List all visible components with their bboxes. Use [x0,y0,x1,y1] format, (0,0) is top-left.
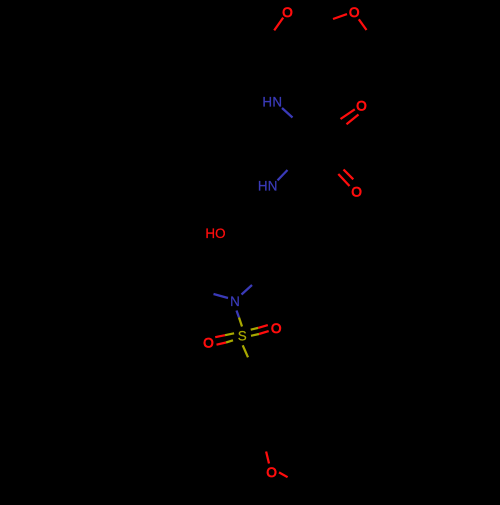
double bond C=O4 lower red line [347,115,359,125]
double bond S=O11 upper line yellow half [251,328,258,330]
atom label O11 (right sulfonyl oxygen) [271,321,281,336]
svg-text:O: O [282,5,292,20]
svg-text:O: O [349,5,359,20]
atom label O10 (left sulfonyl oxygen) [203,335,213,350]
bond Caryl-O12 red half [266,452,269,464]
atom label O12 (methoxy oxygen) [266,465,276,480]
svg-text:O: O [215,226,225,241]
bond N8-CH2 upper-right blue half [242,285,253,295]
atom label H of HO7 (hydroxyl) [205,226,225,241]
double bond C=O6 left red line [338,174,349,186]
double bond S=O10 upper line yellow half [225,333,234,335]
double bond C=O6 right red line [344,170,354,180]
atom label O6 (lower carbonyl oxygen) [351,184,361,199]
double bond S=O11 lower line red half [259,331,269,334]
double bond C=O4 upper red line [341,109,355,119]
svg-text:S: S [238,328,247,343]
svg-text:H: H [258,179,268,194]
svg-text:O: O [351,184,361,199]
svg-text:O: O [203,335,213,350]
double bond S=O11 upper line red half [258,325,268,328]
svg-text:O: O [356,99,366,114]
bond O2-C left red half [333,14,347,19]
bond O12-CH3 red half [279,472,288,477]
svg-text:H: H [205,226,215,241]
atom label O2 (top-right furan oxygen) [349,5,359,20]
atom label O4 (upper carbonyl oxygen) [356,99,366,114]
bond O2-CH2 right red half [359,19,367,30]
bond N8-S blue half [237,311,240,318]
bond O1-CH2 red half [274,18,283,31]
svg-text:O: O [271,321,281,336]
atom label S9 (sulfonyl sulfur) [238,328,247,343]
atom label H of HN5 (lower squaramide NH) [258,179,278,194]
svg-text:N: N [230,294,240,309]
double bond S=O10 upper line red half [215,335,225,337]
double bond S=O11 lower line yellow half [251,334,259,336]
bond N8-S yellow half [239,318,242,327]
svg-text:N: N [272,94,282,109]
atom label O1 (top-left furan oxygen) [282,5,292,20]
svg-text:N: N [268,179,278,194]
atom label N8 (sulfonamide nitrogen) [230,294,240,309]
double bond S=O10 lower line yellow half [226,340,233,342]
bond S9-Caryl yellow half [243,345,248,357]
bond N8-CH2 left blue half [214,294,229,298]
atom label H of HN3 (upper squaramide NH) [262,94,282,109]
svg-text:O: O [266,465,276,480]
double bond S=O10 lower line red half [217,343,227,345]
svg-text:H: H [262,94,272,109]
bond N5-C blue half [278,170,288,180]
bond N3-C blue half [282,108,293,118]
